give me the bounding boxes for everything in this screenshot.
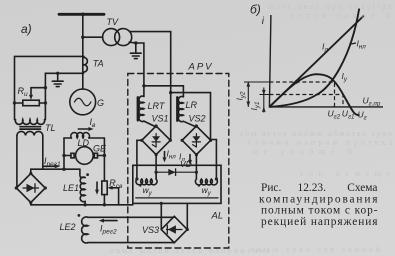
svg-text:LRT: LRT <box>148 101 166 111</box>
transformer TA <box>83 58 88 73</box>
wire VS1 bottom down <box>155 155 157 179</box>
curve Iu bell <box>269 74 359 115</box>
wire line B <box>45 73 83 119</box>
node LE2 polarity <box>78 214 81 217</box>
node VS1 corners <box>140 124 172 156</box>
label Ugpr <box>363 96 381 108</box>
inductor LE2 <box>82 217 88 243</box>
wire LD right leg <box>103 138 105 181</box>
arrow Ireg1 <box>44 164 61 168</box>
label i <box>262 16 265 27</box>
dashed level Iu2 <box>269 82 334 107</box>
node TV primary tap <box>81 36 84 39</box>
label Ug1 <box>342 109 355 121</box>
APV dashed border <box>128 74 229 249</box>
label Iv <box>90 117 97 129</box>
svg-text:VS1: VS1 <box>152 114 169 124</box>
arrow Inl <box>163 152 167 163</box>
svg-text:полным током с кор-: полным током с кор- <box>261 204 378 216</box>
node VS3 right <box>186 228 189 231</box>
label Iu1 <box>249 102 261 111</box>
dimension Iu1 <box>260 88 270 113</box>
label AL <box>211 211 224 222</box>
svg-text:Рис.: Рис. <box>261 182 281 194</box>
node bus tap <box>81 13 85 17</box>
label Il graph <box>322 42 328 54</box>
reactor LD <box>64 133 104 138</box>
node Rsv bottom <box>103 203 106 206</box>
arrow Ireg2 <box>99 219 117 223</box>
inductor LE1 <box>80 169 85 205</box>
arrow Iv <box>78 127 93 131</box>
arrow down beside Rsv <box>95 182 99 195</box>
label LD <box>78 138 90 148</box>
label LR <box>186 100 198 110</box>
label Iu2 <box>235 91 247 100</box>
reactor LR <box>177 96 183 121</box>
wire LRT to VS1 <box>144 121 156 127</box>
wire VS3 left riser <box>160 203 162 229</box>
node wu left end <box>135 177 141 186</box>
node wiper tap <box>44 86 47 89</box>
thyristor bridge VS2 <box>182 126 211 155</box>
wire LD left leg <box>63 138 65 169</box>
dimension Iu2 <box>244 81 269 107</box>
svg-text:G: G <box>97 98 104 108</box>
ground under TV <box>130 43 141 59</box>
node VD rail left <box>155 171 158 174</box>
rectifier bridge of TL <box>16 174 45 203</box>
label LRT <box>148 101 166 111</box>
label VS3 <box>142 225 159 235</box>
svg-text:12.23.: 12.23. <box>298 182 327 194</box>
label LE2 <box>60 222 76 232</box>
node TV line branch <box>169 91 172 94</box>
svg-text:LE2: LE2 <box>60 222 76 232</box>
wire VS2 bottom down <box>195 155 197 179</box>
node Ri right <box>44 101 47 104</box>
resistor Ri <box>23 100 40 106</box>
label VS2 <box>189 114 206 124</box>
label wu right <box>202 185 212 197</box>
wire main feeder <box>82 14 84 89</box>
label Inl graph <box>351 39 366 51</box>
label Ireg1 <box>44 156 61 168</box>
svg-text:LR: LR <box>186 100 198 110</box>
label G <box>97 98 104 108</box>
label Iu graph <box>342 71 348 83</box>
wire TV to APV right branch <box>130 32 171 141</box>
wire VS2 right to AL <box>211 140 217 180</box>
arrow Il <box>188 155 192 165</box>
label LE1 <box>63 183 79 193</box>
label Ug <box>358 110 367 122</box>
transformer TV <box>103 29 132 46</box>
wire branch to LR <box>144 86 184 97</box>
wire VS1 left to AL <box>137 140 142 179</box>
transformer TL <box>15 120 44 136</box>
label TL <box>45 123 56 133</box>
thyristor bridge VS1 <box>142 126 171 155</box>
wire Rsv wiper <box>107 186 118 205</box>
curve Il line <box>269 16 364 107</box>
label Rsv <box>109 178 123 190</box>
label TA <box>93 59 104 69</box>
wire Ri wiper <box>29 88 45 100</box>
node LE1 bottom <box>83 203 86 206</box>
wire bottom rail <box>31 203 133 205</box>
node GE right <box>103 154 106 157</box>
wire AL inner bottom <box>136 197 218 199</box>
label Ri <box>18 86 29 98</box>
box AL <box>133 165 221 203</box>
wire VS3 right riser <box>186 203 188 229</box>
svg-text:а): а) <box>21 22 32 36</box>
curve Inl <box>269 9 359 107</box>
label VS1 <box>152 114 169 124</box>
label APV <box>188 62 214 73</box>
svg-text:APV: APV <box>188 62 214 73</box>
node VS2 corners <box>181 124 213 156</box>
node Ri left <box>13 101 16 104</box>
thyristor bridge VS3 <box>161 216 187 242</box>
node ground B <box>56 72 59 75</box>
node wu right end <box>198 177 218 186</box>
winding wu right <box>195 179 217 185</box>
label Ireg2 <box>100 224 117 236</box>
paper marks <box>110 2 393 255</box>
svg-text:AL: AL <box>211 211 224 222</box>
svg-text:б): б) <box>250 3 261 17</box>
label Inl <box>167 149 177 161</box>
svg-text:TA: TA <box>93 59 104 69</box>
svg-text:Схема: Схема <box>347 182 377 194</box>
wire bridge top to LE1 line <box>31 169 80 173</box>
label a) <box>21 22 32 36</box>
svg-text:VS2: VS2 <box>189 114 206 124</box>
label GE <box>93 144 107 154</box>
node LD leg junction <box>62 168 65 171</box>
svg-text:VS3: VS3 <box>142 225 159 235</box>
svg-text:TL: TL <box>45 123 56 133</box>
node GE left <box>62 154 65 157</box>
wire Ri right <box>39 102 45 104</box>
wire TL right down <box>42 136 44 170</box>
resistor Rsv <box>102 181 107 205</box>
svg-text:LE1: LE1 <box>63 183 79 193</box>
generator G <box>70 89 96 115</box>
node LE1 polarity <box>86 173 89 176</box>
wire TV bottom tap <box>129 42 144 96</box>
dashed level Iu1 <box>269 95 343 107</box>
svg-text:VD: VD <box>180 159 192 169</box>
node dashed-Il crossing <box>295 80 298 83</box>
svg-text:рекцией напряжения: рекцией напряжения <box>261 216 378 228</box>
label VD <box>180 159 192 169</box>
wire to TV <box>83 36 103 38</box>
label TV <box>107 17 119 27</box>
label Il <box>179 152 185 164</box>
label b) <box>250 3 261 17</box>
graph axes <box>269 15 383 107</box>
reactor LRT <box>138 96 144 121</box>
caption <box>259 182 378 228</box>
GRAPH <box>235 3 384 122</box>
svg-text:TV: TV <box>107 17 119 27</box>
winding wu left <box>136 172 157 185</box>
node LRT top branch <box>142 84 145 87</box>
node TV ground tap <box>134 41 137 44</box>
svg-text:еличин напряж протека: еличин напряж протека <box>248 138 392 147</box>
wire Ri left <box>15 102 23 104</box>
wire line A <box>15 56 85 119</box>
ground at line B <box>52 73 63 86</box>
machine GE <box>64 147 104 165</box>
label Ug2 <box>328 109 341 121</box>
busbar <box>59 13 104 16</box>
wire LE2 bottom <box>88 242 174 244</box>
wire branch to VS2 right <box>171 93 211 140</box>
node VS3 left riser <box>160 202 163 205</box>
wire LR to VS2 <box>183 121 196 127</box>
label wu left <box>143 185 153 197</box>
node bridge corners <box>15 172 47 204</box>
node VD rail right <box>195 171 198 174</box>
wire TL left down <box>16 136 18 189</box>
wire VD rail <box>156 171 196 173</box>
diode VD <box>168 169 175 176</box>
wire LE2 top <box>88 216 174 218</box>
